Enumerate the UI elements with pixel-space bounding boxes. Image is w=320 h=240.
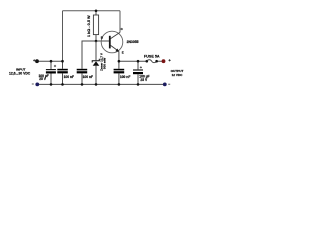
input + terminal (33, 59, 39, 63)
svg-text:100 nF: 100 nF (120, 75, 130, 79)
transistor Q1 base bar (109, 36, 111, 49)
svg-text:2N3055: 2N3055 (127, 40, 139, 44)
node junction dot top of resistor (95, 10, 98, 13)
svg-text:100 nF: 100 nF (64, 75, 74, 79)
output - terminal (163, 83, 170, 87)
transistor Q1 emitter lead with arrow (110, 45, 119, 61)
node junction dot base (95, 40, 98, 43)
transistor Q1 collector lead (110, 32, 120, 38)
svg-text:FUSE 5A: FUSE 5A (144, 55, 160, 59)
svg-text:25 V: 25 V (140, 78, 148, 82)
capacitor C5 100uF 25V electrolytic (133, 61, 143, 84)
input - terminal (32, 83, 39, 87)
svg-text:25 V: 25 V (39, 77, 47, 81)
zener diode D1 (92, 41, 99, 84)
wire left riser (input+ up to top rail) (62, 11, 64, 61)
svg-text:12,6...30 VDC: 12,6...30 VDC (9, 72, 31, 76)
capacitor C1 100uF 25V electrolytic (46, 61, 56, 84)
output + terminal (162, 59, 171, 63)
svg-text:E: E (122, 50, 124, 54)
node junction dots output rail (118, 60, 121, 63)
resistor R1 body (93, 11, 98, 41)
wire input+ rail (37, 60, 64, 62)
svg-text:1 kΩ - 0.5 W: 1 kΩ - 0.5 W (87, 15, 91, 37)
svg-text:100 nF: 100 nF (83, 75, 93, 79)
capacitor C4 100nF (114, 61, 125, 84)
wire base node (82, 41, 109, 68)
capacitor C3 100nF (77, 41, 88, 84)
fuse F1 (146, 60, 158, 63)
node junction dots input rail (50, 60, 53, 63)
capacitor C2 100nF (57, 61, 68, 84)
svg-text:500 mW: 500 mW (103, 58, 107, 70)
wire ground rail (37, 83, 165, 85)
node junction dots ground rail (50, 83, 53, 86)
wire top rail from left riser to collector riser (63, 10, 121, 12)
svg-text:12 VDC: 12 VDC (172, 73, 184, 77)
wire collector riser (119, 11, 121, 33)
svg-text:C: C (121, 27, 124, 31)
transistor Q1 circle (101, 31, 123, 53)
wire output rail (emitter to fuse to terminal) (119, 60, 164, 62)
